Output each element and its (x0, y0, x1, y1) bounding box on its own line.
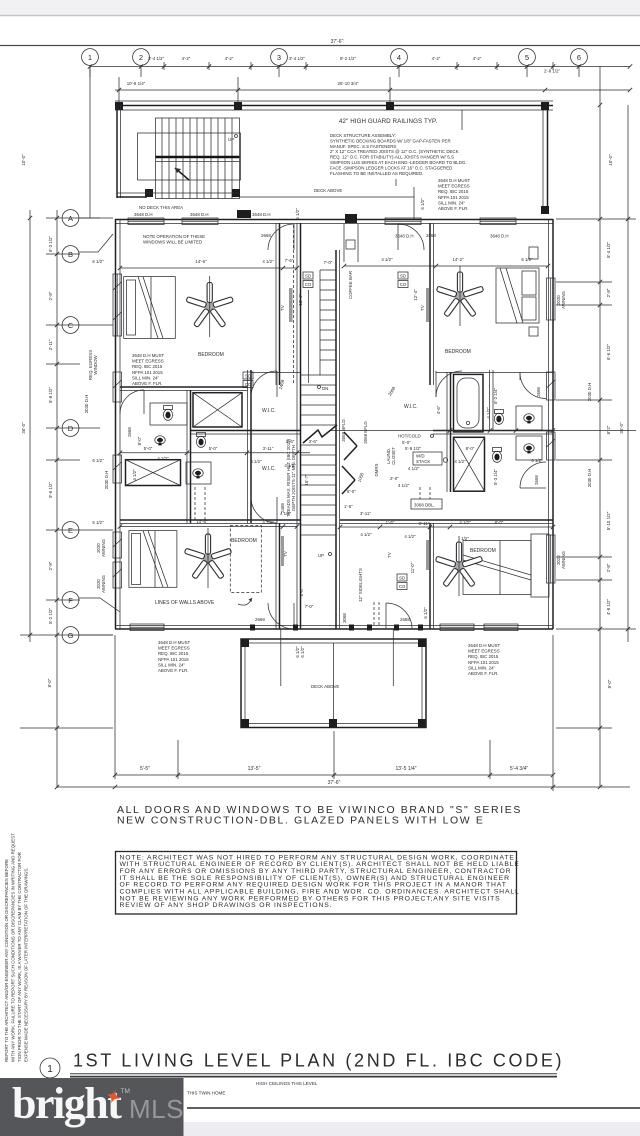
svg-text:DECK STRUCTURE ASSEMBLY:: DECK STRUCTURE ASSEMBLY: (330, 133, 396, 138)
svg-text:2668: 2668 (261, 233, 271, 238)
upper bedroom fan (186, 283, 233, 328)
svg-text:3: 3 (277, 53, 281, 62)
wall below bath (120, 519, 300, 521)
svg-text:TV: TV (387, 552, 392, 558)
svg-text:MEET EGRESS: MEET EGRESS (438, 184, 470, 189)
svg-text:SIMPSON LUS SERIES AT EACH END: SIMPSON LUS SERIES AT EACH END.-LEDGER B… (330, 160, 467, 165)
stair landing rails (156, 156, 240, 159)
bath fixtures left (150, 403, 187, 425)
svg-text:4 1/2": 4 1/2" (262, 259, 274, 264)
left grid bubbles column (62, 210, 120, 644)
svg-text:AWNING: AWNING (101, 574, 106, 592)
west wall (429, 223, 431, 385)
svg-text:TV: TV (420, 305, 425, 311)
svg-text:DECK ABOVE: DECK ABOVE (314, 188, 342, 193)
svg-text:5'-0": 5'-0" (402, 440, 411, 445)
svg-text:NEW CONSTRUCTION-DBL. GLAZED P: NEW CONSTRUCTION-DBL. GLAZED PANELS WITH… (117, 815, 484, 827)
svg-text:4 1/2": 4 1/2" (132, 469, 137, 481)
left margin vertical disclaimer text (4, 833, 29, 1062)
svg-text:4: 4 (397, 53, 401, 62)
svg-text:REQ. 12" O.C. FOR STABILITY)-A: REQ. 12" O.C. FOR STABILITY)-ALL JOISTS … (330, 155, 454, 160)
svg-text:ABOVE F. FLR.: ABOVE F. FLR. (132, 381, 163, 386)
svg-text:TV: TV (283, 551, 288, 557)
svg-text:SILL MIN. 24": SILL MIN. 24" (158, 662, 185, 667)
svg-text:MEET EGRESS: MEET EGRESS (468, 649, 500, 654)
svg-text:6 1/2": 6 1/2" (92, 259, 104, 264)
svg-text:5'-4 1/2": 5'-4 1/2" (606, 242, 611, 259)
svg-text:DMRS: DMRS (374, 463, 379, 476)
svg-text:MEET EGRESS: MEET EGRESS (158, 646, 190, 651)
svg-text:REQ. IBC 2015: REQ. IBC 2015 (468, 654, 499, 659)
svg-text:1: 1 (47, 1064, 53, 1075)
top dimension line 1 (88, 39, 632, 77)
break line (303, 425, 337, 443)
deck frame (241, 639, 426, 728)
svg-text:TREADS MAX. RISER HGT. (IBC 20: TREADS MAX. RISER HGT. (IBC 2015) (286, 438, 291, 517)
svg-text:WINDOWS WILL BE LIMITED: WINDOWS WILL BE LIMITED (143, 240, 202, 245)
top gray browser band (0, 0, 640, 15)
svg-text:8'-0": 8'-0" (347, 489, 356, 494)
svg-text:2'-8 1/2": 2'-8 1/2" (544, 69, 561, 74)
svg-text:REQ. IBC 2015: REQ. IBC 2015 (438, 189, 469, 194)
svg-text:HOT/COLD: HOT/COLD (398, 434, 421, 439)
stair shaft walls (296, 223, 298, 629)
svg-text:3'-11": 3'-11" (263, 446, 274, 451)
svg-text:6'-3 1/2": 6'-3 1/2" (48, 236, 53, 253)
svg-text:6: 6 (577, 53, 581, 62)
fan (184, 534, 231, 579)
svg-text:DEPTH JOISTS-11" MIN. DEPTH: DEPTH JOISTS-11" MIN. DEPTH (291, 445, 296, 511)
svg-text:EXPENSE MADE NECESSARY BY REAS: EXPENSE MADE NECESSARY BY REASON OF LATE… (24, 868, 29, 1062)
svg-text:5: 5 (525, 53, 529, 62)
svg-text:4'-2": 4'-2" (432, 56, 441, 61)
left exterior wall (115, 219, 117, 629)
svg-text:5'-5": 5'-5" (140, 766, 150, 772)
svg-text:CLOSET: CLOSET (391, 447, 396, 465)
svg-text:2030 D.H: 2030 D.H (587, 469, 592, 488)
svg-text:WITH ANY WORK. FAILURE TO REPO: WITH ANY WORK. FAILURE TO REPORT SUCH CO… (11, 833, 16, 1062)
right vertical dimension lines (556, 67, 636, 790)
svg-text:4'-8 1/2": 4'-8 1/2" (606, 599, 611, 616)
svg-text:7'-6": 7'-6" (285, 258, 294, 263)
grid circle 3 (271, 49, 288, 66)
svg-text:2030 D.H: 2030 D.H (84, 395, 89, 414)
svg-text:5'-0": 5'-0" (209, 446, 218, 451)
svg-text:TV: TV (280, 305, 285, 311)
svg-text:2: 2 (139, 53, 143, 62)
dim row (120, 526, 297, 528)
wall below bath (340, 519, 553, 521)
right unit lower bedroom (338, 520, 555, 676)
svg-text:BEDROOM: BEDROOM (231, 538, 257, 544)
svg-text:6 1/2": 6 1/2" (521, 257, 533, 262)
up arrow (175, 168, 189, 180)
svg-text:3068 DBL.: 3068 DBL. (414, 503, 435, 508)
title underline (70, 1073, 557, 1075)
svg-text:SILL MIN. 24": SILL MIN. 24" (132, 375, 159, 380)
svg-text:10'-0": 10'-0" (608, 154, 613, 166)
svg-text:6'-6 1/2": 6'-6 1/2" (606, 344, 611, 361)
svg-text:6 1/2": 6 1/2" (300, 646, 305, 658)
svg-text:3648 D.H MUST: 3648 D.H MUST (438, 178, 471, 183)
svg-text:G: G (68, 631, 74, 640)
fan (435, 542, 482, 587)
svg-text:NFPA 101 2015: NFPA 101 2015 (438, 195, 469, 200)
svg-text:TION PRIOR TO THE START OF ANY: TION PRIOR TO THE START OF ANY WORK, IS … (17, 852, 22, 1062)
bath walls (436, 372, 553, 374)
doors and windows note (117, 804, 522, 827)
svg-text:B: B (68, 250, 73, 259)
svg-text:LINES OF WALLS ABOVE: LINES OF WALLS ABOVE (155, 600, 215, 606)
left wall windows (113, 274, 122, 336)
svg-text:4 1/2": 4 1/2" (404, 534, 416, 539)
svg-text:37'-6": 37'-6" (328, 780, 341, 786)
svg-text:BEDROOM: BEDROOM (445, 349, 471, 355)
mid dim row (120, 452, 310, 454)
svg-text:5'-4 3/4": 5'-4 3/4" (510, 766, 529, 772)
top deck railing (115, 101, 553, 214)
svg-text:6 1/2": 6 1/2" (423, 607, 428, 619)
svg-text:1: 1 (88, 53, 92, 62)
grid bubbles row (82, 49, 588, 66)
svg-text:4'-2": 4'-2" (182, 56, 191, 61)
svg-text:2668: 2668 (400, 617, 410, 622)
svg-text:5'-2 1/2": 5'-2 1/2" (48, 608, 53, 625)
svg-text:FACE -SIMPSON LEDGER LOCKS AT: FACE -SIMPSON LEDGER LOCKS AT 16" O.C. S… (330, 165, 452, 170)
svg-text:3068: 3068 (342, 613, 347, 623)
door arc bath (120, 390, 144, 414)
left unit lower bedroom (118, 519, 304, 673)
svg-text:3068 BFLD.: 3068 BFLD. (341, 418, 346, 441)
deck annotation text (134, 110, 509, 239)
svg-text:NOTE OPERATION OF THESE: NOTE OPERATION OF THESE (143, 234, 205, 239)
svg-text:4 1/2": 4 1/2" (284, 463, 296, 468)
shower (454, 437, 485, 491)
full treads (301, 374, 337, 376)
upper bedroom (344, 265, 548, 267)
svg-text:4'-6": 4'-6" (436, 405, 441, 414)
svg-text:REPORT TO THE ARCHITECT AND/OR: REPORT TO THE ARCHITECT AND/OR ENGINEER … (4, 859, 9, 1062)
svg-text:2" X 12" CCA TREATED JOISTS @: 2" X 12" CCA TREATED JOISTS @ 12" O.C. (… (330, 149, 459, 154)
note box (116, 852, 520, 915)
bottom sheet line (187, 1107, 640, 1109)
svg-text:8'-0": 8'-0" (47, 678, 52, 687)
grid circle G (62, 627, 79, 644)
upper bedroom bed (124, 277, 176, 339)
svg-text:NFPA 101 2015: NFPA 101 2015 (158, 657, 189, 662)
svg-text:2668: 2668 (426, 233, 436, 238)
svg-text:5'-8 1/2": 5'-8 1/2" (48, 387, 53, 404)
svg-text:13'-5 1/4": 13'-5 1/4" (395, 766, 416, 772)
svg-text:5'-8 1/2": 5'-8 1/2" (405, 446, 422, 451)
svg-text:2668: 2668 (255, 617, 265, 622)
svg-text:3'-6": 3'-6" (309, 439, 318, 444)
svg-text:42" HIGH GUARD RAILINGS TYP.: 42" HIGH GUARD RAILINGS TYP. (339, 118, 437, 125)
svg-text:3648 D.H MUST: 3648 D.H MUST (132, 353, 165, 358)
right wall windows (547, 278, 556, 320)
svg-text:SILL MIN. 24": SILL MIN. 24" (438, 200, 465, 205)
filled window posts (237, 210, 251, 218)
grid circle D (62, 420, 79, 437)
svg-text:4 1/2": 4 1/2" (408, 466, 420, 471)
west wall (429, 523, 431, 629)
svg-text:REVIEW OF ANY SHOP DRAWINGS OR: REVIEW OF ANY SHOP DRAWINGS OR INSPECTIO… (120, 902, 333, 909)
svg-text:3'-6": 3'-6" (286, 439, 295, 444)
svg-text:AWNING: AWNING (561, 550, 566, 568)
svg-text:4 1/2": 4 1/2" (398, 483, 410, 488)
svg-text:2668: 2668 (536, 387, 541, 397)
grid circle 1 (82, 49, 99, 66)
svg-text:26'-10 3/4": 26'-10 3/4" (338, 81, 359, 86)
svg-text:A: A (68, 214, 73, 223)
bifold doors (344, 432, 357, 446)
svg-text:REQ. IBC 2015: REQ. IBC 2015 (158, 651, 189, 656)
svg-text:3648 D.H: 3648 D.H (252, 212, 271, 217)
svg-text:36'-0": 36'-0" (619, 422, 624, 434)
svg-text:12'-4": 12'-4" (413, 289, 418, 301)
deck posts (115, 102, 123, 110)
svg-text:W.I.C.: W.I.C. (404, 404, 418, 410)
mid wall / grid D dim (433, 430, 553, 432)
svg-text:7'-0": 7'-0" (305, 604, 314, 609)
shower upper (193, 393, 242, 427)
svg-text:2'-8": 2'-8" (48, 291, 53, 300)
top dimension line 2 (115, 77, 632, 102)
svg-text:4 1/2": 4 1/2" (250, 459, 262, 464)
bed (463, 541, 531, 595)
svg-text:11'-0": 11'-0" (410, 562, 415, 573)
tub (454, 374, 484, 432)
svg-text:3648 D.H: 3648 D.H (190, 212, 209, 217)
svg-text:36'-0": 36'-0" (21, 422, 26, 434)
grid circle F (62, 592, 79, 609)
svg-text:5'-10 1/2": 5'-10 1/2" (606, 511, 611, 530)
bedroom east wall (275, 223, 277, 385)
svg-text:6 1/2": 6 1/2" (92, 458, 104, 463)
door arcs to bedroom right (520, 373, 546, 399)
svg-text:WINDOW: WINDOW (93, 355, 98, 375)
svg-text:F: F (68, 596, 73, 605)
grid circle A (62, 210, 79, 227)
svg-text:3068 BFLD.: 3068 BFLD. (363, 420, 368, 443)
top exterior wall (115, 210, 553, 299)
svg-text:6 1/2": 6 1/2" (295, 208, 300, 220)
svg-text:4'-2": 4'-2" (225, 56, 234, 61)
dashed plumbing lines (194, 487, 196, 520)
svg-text:2'-8": 2'-8" (606, 288, 611, 297)
coffee bar (343, 224, 345, 263)
toilets and sinks right (494, 410, 503, 425)
svg-text:8'-0": 8'-0" (466, 446, 475, 451)
svg-text:2030 D.H: 2030 D.H (587, 383, 592, 402)
svg-text:5 1/2": 5 1/2" (92, 520, 104, 525)
svg-text:HIGH CEILINGS THIS LEVEL: HIGH CEILINGS THIS LEVEL (256, 1081, 318, 1086)
svg-text:THIS TWIN HOME: THIS TWIN HOME (187, 1091, 225, 1096)
svg-text:2'-8": 2'-8" (48, 561, 53, 570)
svg-text:8'-0": 8'-0" (607, 679, 612, 688)
svg-text:W/D: W/D (416, 454, 425, 459)
bottom dimension rows (57, 635, 630, 791)
svg-text:STACK: STACK (416, 459, 430, 464)
svg-text:MANUF. SPEC. S.S FASTENERS: MANUF. SPEC. S.S FASTENERS (330, 144, 396, 149)
grid circle E (62, 522, 79, 539)
grid circle C (62, 317, 79, 334)
svg-text:8'-0": 8'-0" (137, 436, 142, 445)
upper bedroom dim row (120, 267, 297, 269)
east wall (275, 523, 277, 629)
exterior stair (upper left) (117, 118, 241, 199)
grid circle 4 (391, 49, 408, 66)
grid leader stubs (79, 217, 100, 219)
svg-text:NFPA 101 2015: NFPA 101 2015 (468, 660, 499, 665)
svg-text:C: C (68, 321, 74, 330)
svg-text:AWNING: AWNING (561, 290, 566, 308)
hall wall (489, 370, 491, 430)
bottom wall window segs (130, 624, 164, 631)
bed (129, 531, 177, 588)
svg-text:COFFEE BAR: COFFEE BAR (348, 271, 353, 299)
svg-text:2030 D.H: 2030 D.H (104, 471, 109, 490)
svg-text:AWNING: AWNING (101, 538, 106, 556)
grid circle B (62, 246, 79, 263)
star on t (105, 1088, 123, 1106)
svg-text:3648 D.H: 3648 D.H (490, 234, 509, 239)
svg-text:12" SIDELIGHTS: 12" SIDELIGHTS (358, 568, 363, 602)
svg-text:8'-2 1/2": 8'-2 1/2" (340, 56, 357, 61)
svg-text:10'-9 1/4": 10'-9 1/4" (127, 81, 146, 86)
svg-text:4 1/2": 4 1/2" (454, 459, 466, 464)
shower lower (126, 460, 181, 486)
bathroom outer walls (120, 386, 248, 388)
exterior walls (84, 219, 592, 629)
bottom exterior wall (115, 625, 553, 627)
bright MLS logo (0, 1078, 184, 1136)
hall walls (247, 370, 249, 523)
svg-text:UP: UP (318, 553, 324, 558)
svg-text:REQ. IBC 2015: REQ. IBC 2015 (132, 364, 163, 369)
svg-text:1'-6": 1'-6" (344, 504, 353, 509)
title bubble 1 (40, 1058, 60, 1078)
svg-text:5'-2 1/4": 5'-2 1/4" (493, 388, 498, 405)
svg-text:5'-3 1/4": 5'-3 1/4" (493, 469, 498, 486)
deck left wall (116, 105, 118, 198)
svg-text:W.I.C.: W.I.C. (262, 466, 276, 472)
title block (40, 1051, 640, 1136)
3068 dbl door (411, 499, 442, 509)
svg-text:3648 D.H MUST: 3648 D.H MUST (158, 640, 191, 645)
left vertical dimension lines (20, 67, 113, 790)
svg-text:1ST LIVING LEVEL PLAN (2ND FL.: 1ST LIVING LEVEL PLAN (2ND FL. IBC CODE) (73, 1051, 564, 1071)
svg-text:37'-6": 37'-6" (331, 39, 344, 45)
svg-text:7'-0": 7'-0" (324, 260, 333, 265)
svg-text:3648 D.H MUST: 3648 D.H MUST (468, 643, 501, 648)
svg-text:4 1/2": 4 1/2" (381, 257, 393, 262)
deck posts (241, 639, 249, 647)
sheet top border line (0, 45, 640, 47)
svg-text:SYNTHETIC DECKING BOARDS W/ 1/: SYNTHETIC DECKING BOARDS W/ 1/8" GAP-FAS… (330, 138, 451, 143)
upper half treads (320, 269, 336, 271)
svg-text:14'-2": 14'-2" (452, 257, 464, 262)
svg-text:4 1/2": 4 1/2" (486, 407, 491, 419)
svg-text:3'-11": 3'-11" (48, 339, 53, 350)
svg-text:DN.: DN. (322, 386, 330, 391)
svg-text:BEDROOM: BEDROOM (470, 548, 496, 554)
door swing lines to deck (280, 629, 282, 686)
svg-text:3'-4 1/2": 3'-4 1/2" (289, 56, 306, 61)
svg-text:3'-4 1/2": 3'-4 1/2" (148, 56, 165, 61)
svg-text:2668: 2668 (127, 427, 132, 437)
windows in top wall (128, 218, 164, 225)
svg-text:ABOVE F. FLR.: ABOVE F. FLR. (158, 668, 189, 673)
svg-text:bright: bright (12, 1079, 122, 1128)
right exterior wall (548, 219, 550, 629)
svg-text:FLASHING TO BE INSTALLED AS RE: FLASHING TO BE INSTALLED AS REQUIRED. (330, 171, 423, 176)
svg-text:2668: 2668 (534, 475, 539, 485)
svg-text:W.I.C.: W.I.C. (262, 408, 276, 414)
svg-text:5'-0": 5'-0" (144, 446, 153, 451)
svg-text:13'-5": 13'-5" (248, 766, 261, 772)
svg-text:2'-0": 2'-0" (390, 476, 399, 481)
svg-text:MEET EGRESS: MEET EGRESS (132, 359, 164, 364)
svg-text:ABOVE F. FLR.: ABOVE F. FLR. (468, 671, 499, 676)
svg-text:10'-0": 10'-0" (21, 154, 26, 166)
svg-text:NFPA 101 2015: NFPA 101 2015 (132, 370, 163, 375)
svg-text:2'-8": 2'-8" (606, 563, 611, 572)
grid circle 5 (519, 49, 536, 66)
svg-text:6 1/2": 6 1/2" (420, 198, 425, 210)
svg-text:E: E (68, 526, 73, 535)
svg-text:4 1/2": 4 1/2" (360, 532, 372, 537)
dashed walls above (230, 526, 261, 593)
svg-text:15'-7": 15'-7" (304, 474, 309, 486)
grid circle 2 (133, 49, 150, 66)
svg-text:ABOVE F. FLR.: ABOVE F. FLR. (438, 206, 469, 211)
svg-text:SILL MIN. 24": SILL MIN. 24" (468, 665, 495, 670)
svg-text:9'-6 1/2": 9'-6 1/2" (48, 482, 53, 499)
svg-text:3648 D.H: 3648 D.H (134, 212, 153, 217)
svg-text:3'-11": 3'-11" (360, 511, 371, 516)
svg-text:UP: UP (228, 137, 234, 142)
dim row (340, 526, 553, 528)
svg-text:NO DECK THIS AREA: NO DECK THIS AREA (139, 205, 183, 210)
svg-text:MLS: MLS (129, 1094, 184, 1124)
svg-text:4'-2": 4'-2" (473, 56, 482, 61)
svg-text:DECK ABOVE: DECK ABOVE (311, 684, 339, 689)
svg-text:D: D (68, 424, 74, 433)
svg-text:14'-6": 14'-6" (195, 259, 207, 264)
svg-text:8'-2": 8'-2" (606, 425, 611, 434)
grid circle 6 (571, 49, 588, 66)
svg-text:BEDROOM: BEDROOM (198, 352, 224, 358)
